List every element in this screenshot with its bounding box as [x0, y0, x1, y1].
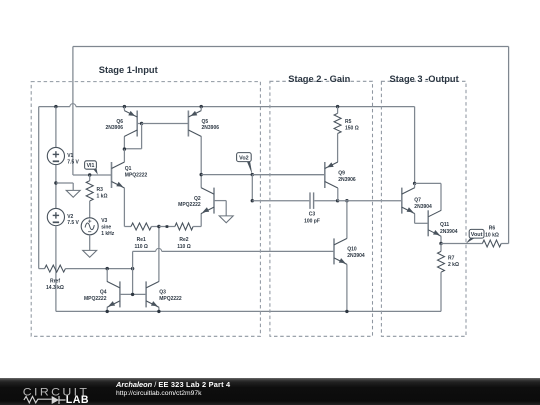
wire C3 right lead [314, 200, 337, 202]
svg-text:MPQ2222: MPQ2222 [84, 296, 107, 302]
wire V3 bottom [89, 235, 91, 251]
node Q6 base junction [140, 122, 143, 125]
wire Q9 base [252, 174, 324, 176]
voltage source V1 [47, 147, 64, 164]
svg-text:Stage 1-Input: Stage 1-Input [99, 65, 158, 75]
svg-text:R7: R7 [448, 255, 455, 261]
node Q4 emitter junction [106, 310, 109, 313]
svg-text:100 pF: 100 pF [304, 218, 320, 224]
wire V1 to V2 [55, 165, 57, 209]
flag Vout pointer [466, 238, 475, 244]
svg-text:2N3906: 2N3906 [338, 177, 356, 183]
wire Q1 base [73, 174, 112, 176]
wire Q2 base right [214, 200, 226, 202]
svg-text:Q10: Q10 [347, 247, 357, 253]
flag Vo2 [237, 153, 252, 162]
wire Q11 collector drop [440, 183, 442, 210]
wire Q10 collector up [346, 201, 348, 239]
resistor R5 [337, 107, 339, 114]
wire left rail down to Rref [38, 107, 40, 269]
node R5 top junction [336, 105, 339, 108]
ground at Q2 base [219, 216, 233, 223]
wire Q4 collector stub [106, 269, 108, 282]
node V1 top junction [54, 105, 57, 108]
resistor R7 [440, 244, 442, 252]
node Rref to Q4 collector junction [106, 267, 109, 270]
flag VI1 [85, 161, 97, 169]
wire Q3 emitter stub [158, 307, 160, 311]
wire hop over feedback drop [70, 104, 76, 107]
node wire joint square [166, 225, 169, 228]
transistor Q4 [119, 281, 121, 307]
wire Q7 emitter drop [414, 214, 416, 224]
wire Q2 emitter riser [200, 214, 202, 227]
transistor Q2 [213, 188, 215, 214]
wire Q9 collector stub [337, 188, 339, 201]
svg-text:Rref: Rref [50, 278, 60, 284]
wire ground stub vertical [72, 183, 74, 190]
resistor R3 [89, 175, 91, 181]
wire Q5 emitter stub [200, 107, 202, 111]
svg-text:Vout: Vout [471, 232, 483, 238]
transistor Q7 [401, 188, 403, 214]
node Q6 collector junction [123, 147, 126, 150]
svg-text:R6: R6 [489, 225, 496, 231]
node Q10 collector junction [345, 199, 348, 202]
svg-text:Q1: Q1 [125, 166, 132, 172]
wire Q6 diode tie vertical [141, 124, 143, 149]
node Q7 collector junction [413, 182, 416, 185]
transistor Q3 [145, 281, 147, 307]
transistor Q5 [187, 111, 189, 137]
wire Q7 collector to Q11 collector [415, 182, 441, 184]
svg-text:14.3 kΩ: 14.3 kΩ [46, 285, 64, 291]
wire Q6 base to mirror node [137, 123, 141, 125]
wire Q6 diode tie horizontal [124, 148, 141, 150]
svg-text:Vo2: Vo2 [239, 155, 249, 161]
wire Re1 to tap [151, 226, 159, 228]
svg-text:1 kHz: 1 kHz [101, 231, 115, 237]
svg-text:V1: V1 [67, 153, 73, 159]
wire hop over Q3 collector [156, 248, 162, 251]
wire Vo2 net [201, 174, 325, 176]
svg-text:VI1: VI1 [87, 163, 95, 169]
wire Q2 collector up [200, 175, 202, 188]
wire ground stub horizontal [56, 182, 73, 184]
wire Q3 collector up to emitter resistors [158, 227, 160, 282]
transistor Q1 [111, 162, 113, 188]
wire C3 net to stage3 [338, 200, 402, 202]
wire Re2 to Q2 emitter [193, 226, 201, 228]
wire Q2 base drop [225, 201, 227, 216]
node Q3 emitter junction [157, 310, 160, 313]
flag Vo2 pointer [247, 160, 252, 174]
resistor Re2 [175, 223, 193, 230]
svg-text:V2: V2 [67, 214, 73, 220]
node Q10 emitter junction [345, 310, 348, 313]
circuitlab logo [0, 378, 110, 405]
wire feedback left drop to Q1 base [72, 47, 74, 176]
transistor Q10 [333, 238, 335, 264]
stage 2 dashed box [270, 81, 373, 336]
svg-text:LAB: LAB [66, 394, 89, 405]
svg-text:Stage 3 -Output: Stage 3 -Output [390, 74, 459, 84]
wire Q4 emitter stub [106, 307, 108, 311]
footer bar [0, 378, 540, 405]
node Re1 tap junction [157, 225, 160, 228]
footer title text [116, 381, 230, 398]
svg-text:1 kΩ: 1 kΩ [97, 194, 108, 200]
node Q5 emitter junction [200, 105, 203, 108]
svg-text:Q7: Q7 [414, 197, 421, 203]
wire positive rail right segment [76, 106, 415, 108]
node Q5-Q2 collector junction [200, 173, 203, 176]
node Q9 collector junction [336, 199, 339, 202]
svg-text:110 Ω: 110 Ω [134, 244, 147, 250]
ground below V3 [83, 250, 97, 257]
voltage source V2 [47, 208, 64, 225]
svg-text:Q9: Q9 [338, 170, 345, 176]
wire Q1 collector up [123, 149, 125, 162]
node base tie junction [131, 293, 134, 296]
svg-text:R5: R5 [345, 119, 352, 125]
stage 3 dashed box [381, 81, 466, 336]
flag Vout [469, 229, 484, 238]
svg-text:7.5 V: 7.5 V [67, 160, 79, 166]
wire Q10 emitter down [346, 264, 348, 311]
svg-text:2 kΩ: 2 kΩ [448, 262, 459, 268]
svg-text:10 kΩ: 10 kΩ [485, 232, 499, 238]
node ground tap junction [54, 181, 57, 184]
svg-text:MPQ2222: MPQ2222 [125, 173, 148, 179]
svg-text:Re1: Re1 [137, 237, 146, 243]
resistor R6 [441, 243, 482, 245]
wire top feedback rail [73, 46, 509, 48]
wire Q1 emitter corner to Re1 [124, 226, 131, 228]
flag VI1 pointer [93, 167, 98, 175]
stage 1 dashed box [31, 82, 260, 337]
svg-text:Q4: Q4 [100, 290, 107, 296]
capacitor C3 [309, 192, 311, 209]
transistor Q6 [136, 111, 138, 137]
svg-text:V3: V3 [101, 218, 107, 224]
wire V1 top lead [55, 107, 57, 148]
svg-text:MPQ2222: MPQ2222 [178, 202, 201, 208]
wire positive rail left segment [39, 106, 70, 108]
wire Q7 emitter to Q11 base [415, 222, 429, 224]
svg-text:C3: C3 [309, 212, 316, 218]
svg-text:2N3904: 2N3904 [347, 253, 365, 259]
wire Q10 base run left segment [133, 250, 156, 252]
svg-text:Q2: Q2 [194, 196, 201, 202]
voltage source V3 sine [81, 218, 98, 235]
wire Q10 base run right segment [162, 250, 334, 252]
wire Q6 collector stub [123, 137, 125, 150]
wire Q11 emitter stub [440, 236, 442, 243]
svg-text:R3: R3 [97, 187, 104, 193]
resistor Rref [39, 268, 45, 270]
svg-text:Q3: Q3 [159, 290, 166, 296]
wire Q5 collector drop [200, 137, 202, 175]
node output junction [439, 242, 442, 245]
wire Q7 collector stub [414, 183, 416, 187]
wire Vo2 drop [251, 175, 253, 201]
node C3 wire start junction [251, 199, 254, 202]
svg-text:Q6: Q6 [116, 119, 123, 125]
svg-text:150 Ω: 150 Ω [345, 126, 359, 132]
ground near V1 [66, 190, 80, 197]
node Rref right end junction [131, 267, 134, 270]
svg-text:2N3904: 2N3904 [440, 229, 458, 235]
wire C3 left lead [252, 200, 309, 202]
svg-text:2N3904: 2N3904 [414, 204, 432, 210]
resistor Re1 [131, 223, 151, 230]
wire Q6 emitter stub [123, 107, 125, 111]
wire Q1 emitter down [123, 188, 125, 227]
svg-text:2N3906: 2N3906 [105, 125, 123, 131]
svg-text:Stage 2 - Gain: Stage 2 - Gain [288, 74, 350, 84]
svg-text:7.5 V: 7.5 V [67, 220, 79, 226]
svg-text:Re2: Re2 [179, 237, 188, 243]
svg-text:Q11: Q11 [440, 222, 449, 228]
wire right feedback rail [508, 47, 510, 244]
wire tap segment [159, 226, 175, 228]
wire positive rail right drop to Q7 collector [414, 107, 416, 184]
transistor Q11 [427, 210, 429, 236]
svg-text:110 Ω: 110 Ω [177, 244, 190, 250]
svg-text:MPQ2222: MPQ2222 [159, 296, 182, 302]
wire Q4-Q3 base tie [120, 293, 146, 295]
wire base rail Q6 to Q5 [142, 123, 189, 125]
wire negative rail [56, 310, 441, 312]
node Vo2 tap junction [251, 173, 254, 176]
node R3 tap junction [88, 173, 91, 176]
svg-text:2N3906: 2N3906 [202, 125, 220, 131]
wire V2 bottom to negative rail [55, 225, 57, 311]
node Q6 emitter junction [123, 105, 126, 108]
svg-text:sine: sine [101, 225, 111, 231]
transistor Q9 (pnp) [324, 162, 326, 188]
svg-text:Q5: Q5 [202, 119, 209, 125]
wire mirror bias vertical [132, 251, 134, 294]
